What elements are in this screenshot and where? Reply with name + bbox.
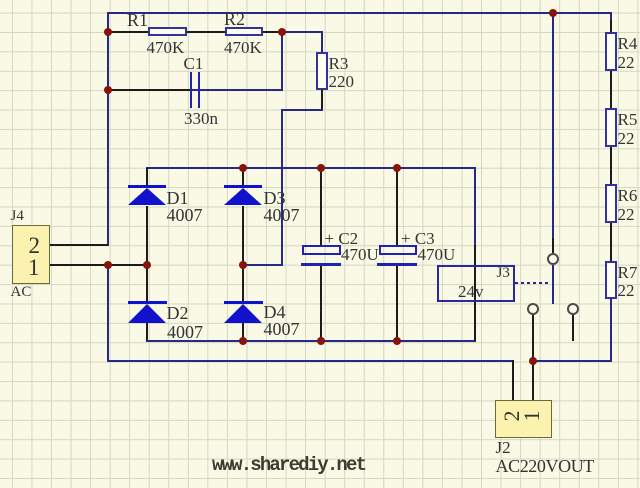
wire R5-R6 link	[610, 147, 612, 184]
wire R1 left lead	[108, 31, 148, 33]
connector J2 box	[495, 400, 552, 438]
wire C3 top lead	[396, 168, 398, 245]
label R7 designator	[618, 264, 638, 281]
resistor R7	[605, 261, 617, 300]
wire D1 anode lead	[146, 168, 148, 185]
label D2 value 4007	[167, 323, 203, 341]
relay switch NC contact circle	[567, 303, 579, 315]
wire C2 top lead	[320, 168, 322, 245]
label R4 value 22	[618, 54, 635, 71]
wire D1 cathode lead	[146, 206, 148, 265]
wire C2 bottom lead	[320, 266, 322, 341]
wire R3 branch vertical down	[281, 109, 283, 266]
label R5 designator	[618, 111, 638, 128]
wire D4 anode lead	[242, 265, 244, 301]
junction C3 top / rail	[393, 164, 401, 172]
wire node A vertical to C1 row	[281, 31, 283, 92]
junction C1 row / left rail	[104, 86, 112, 94]
pin number J2 pin 1	[521, 405, 543, 427]
diode D3 triangle	[224, 188, 262, 205]
wire D2 cathode lead	[146, 323, 148, 342]
wire left rail lower segment	[107, 264, 109, 362]
wire switch pole pin	[552, 238, 554, 253]
label R7 value 22	[618, 282, 635, 299]
wire J3 coil feed through box	[474, 245, 476, 341]
wire switch armature	[552, 265, 555, 304]
label J3 value 24v	[458, 283, 484, 300]
label D2 designator	[167, 304, 189, 322]
wire R4-R5 link	[610, 71, 612, 108]
wire D4 cathode lead	[242, 323, 244, 342]
capacitor C2 top plate	[302, 245, 341, 255]
wire J3 link dashed	[515, 282, 550, 284]
resistor R3	[316, 52, 328, 90]
label D1 value 4007	[167, 206, 203, 224]
label R6 value 22	[618, 206, 635, 223]
junction node A (R2 right)	[278, 28, 286, 36]
junction C2 top / rail	[317, 164, 325, 172]
pin number J2 pin 2	[501, 405, 523, 427]
wire right vertical up to R7	[610, 299, 612, 362]
wire C1 row right segment	[191, 89, 283, 91]
label R2 value 470K	[224, 39, 262, 56]
label J3 designator	[497, 266, 510, 281]
capacitor C3 bottom plate	[377, 263, 417, 266]
label R1 designator	[127, 11, 148, 29]
relay switch NO contact circle	[527, 303, 539, 315]
label R5 value 22	[618, 130, 635, 147]
junction R1 row / left rail	[104, 28, 112, 36]
label J2 designator	[496, 439, 511, 456]
wire D3 anode lead	[242, 168, 244, 185]
label R6 designator	[618, 187, 638, 204]
label J2 net AC220VOUT	[496, 457, 594, 475]
junction D4 bottom / rail	[239, 337, 247, 345]
label R1 value 470K	[147, 39, 185, 56]
junction D1-D2 midpoint	[143, 261, 151, 269]
capacitor C3 top plate	[379, 245, 418, 255]
label J4 designator	[11, 209, 24, 224]
wire left rail upper segment	[107, 12, 109, 246]
diode D2 triangle	[128, 304, 166, 323]
wire bottom rail to J2 pin 2	[107, 360, 514, 362]
junction J2 pin1 / switch / R chain	[529, 357, 537, 365]
wire R3 bottom lead	[321, 90, 323, 110]
wire R3 branch to bridge midpoint	[242, 264, 283, 266]
wire switch pole vertical	[552, 13, 554, 239]
resistor R1	[148, 27, 188, 36]
wire J4 pin 1 lead	[50, 264, 147, 266]
connector J4 box	[12, 225, 50, 284]
label R3 designator	[329, 55, 349, 72]
label C2 designator	[325, 230, 359, 247]
capacitor C2 bottom plate	[301, 263, 341, 266]
wire R2 right lead	[263, 31, 283, 33]
diode D4 triangle	[224, 304, 262, 323]
wire J2 pin 2 vertical	[512, 360, 514, 401]
diode D1 triangle	[128, 188, 166, 205]
wire junction to right corner	[532, 360, 612, 362]
label C3 value 470U	[418, 246, 456, 263]
junction C2 bottom / rail	[317, 337, 325, 345]
resistor R5	[605, 108, 617, 147]
label D4 value 4007	[264, 320, 300, 338]
pin number J4 pin 2	[29, 234, 41, 257]
wire top right corner down to R4	[610, 12, 612, 20]
diode D2 cathode bar	[128, 301, 167, 304]
wire J3 coil feed upper	[474, 168, 476, 245]
label D3 value 4007	[264, 206, 300, 224]
diode D4 cathode bar	[224, 301, 263, 304]
wire C1 row left segment	[108, 89, 191, 91]
wire bridge bottom rail	[146, 340, 476, 342]
wire C3 bottom lead	[396, 266, 398, 341]
relay switch pole contact circle	[547, 253, 559, 265]
junction C3 bottom / rail	[393, 337, 401, 345]
wire D3 cathode lead	[242, 206, 244, 265]
wire D2 anode lead	[146, 265, 148, 301]
pin number J4 pin 1	[28, 256, 40, 279]
wire J4 pin 2 lead	[50, 244, 108, 246]
wire R3 top lead vertical	[321, 31, 323, 52]
junction J4 pin1 / left rail	[104, 261, 112, 269]
capacitor C1 left plate	[190, 72, 192, 108]
resistor R6	[605, 184, 617, 223]
label J4 net AC	[11, 285, 32, 300]
wire switch NO contact pin	[532, 315, 534, 361]
relay coil J3 box	[437, 265, 515, 303]
diode D1 cathode bar	[128, 185, 167, 188]
watermark www.sharediy.net	[212, 456, 365, 475]
junction top rail / switch pole	[549, 9, 557, 17]
label R4 designator	[618, 35, 638, 52]
label R2 designator	[224, 10, 245, 28]
wire switch NC contact stub	[572, 315, 574, 341]
label D1 designator	[167, 189, 189, 207]
label C2 value 470U	[341, 246, 379, 263]
label C1 value 330n	[184, 110, 218, 127]
label D4 designator	[264, 303, 286, 321]
wire R6-R7 link	[610, 223, 612, 260]
wire top rail	[107, 12, 611, 14]
label C1 designator	[184, 55, 204, 72]
label D3 designator	[264, 189, 286, 207]
diode D3 cathode bar	[224, 185, 263, 188]
wire R1-R2 link	[187, 31, 226, 33]
label C3 designator	[401, 230, 435, 247]
resistor R2	[225, 27, 263, 37]
wire bridge top rail	[146, 167, 476, 169]
capacitor C1 right plate	[198, 72, 200, 108]
wire R3 bottom elbow horizontal	[281, 109, 323, 111]
junction D3 top / rail	[239, 164, 247, 172]
wire R3 top elbow horizontal	[281, 31, 323, 33]
resistor R4	[605, 32, 617, 71]
wire R4 top pin	[610, 20, 612, 33]
wire J2 pin 1 vertical	[532, 360, 534, 401]
junction D3-D4 midpoint	[239, 261, 247, 269]
label R3 value 220	[329, 73, 355, 90]
